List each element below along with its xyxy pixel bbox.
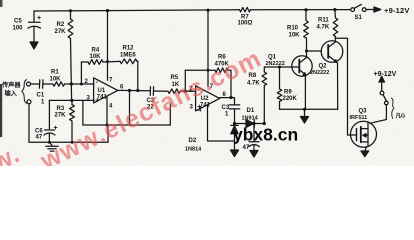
arrow up right terminal [379,76,385,82]
svg-text:741: 741 [200,103,211,109]
wire U2 pin7 riser to rail [207,10,209,86]
wire R4 to R12 [103,60,120,63]
wire U2 feedback riser [184,70,186,91]
wire Q2 collector riser [334,37,336,42]
resistor R1 [53,82,65,86]
wire U1 pin3 line [49,99,94,101]
transistor Q1 2N2222 [292,56,312,76]
svg-text:U1: U1 [98,88,106,94]
svg-text:+9-12V: +9-12V [384,6,410,15]
svg-text:47: 47 [243,145,250,151]
wire top supply rail [34,10,240,11]
svg-text:Q1: Q1 [268,55,277,61]
svg-text:47: 47 [36,135,43,141]
svg-text:Q3: Q3 [359,109,368,115]
wire riser from U1 output down to ground line [129,91,131,126]
svg-text:R12: R12 [123,46,135,52]
resistor R7 [240,7,251,12]
left edge scan bar [0,84,2,137]
svg-text:4.7K: 4.7K [317,25,330,31]
svg-text:S1: S1 [355,15,363,21]
ground arrow below Q3 [361,151,369,157]
svg-text:R3: R3 [57,106,65,112]
svg-text:+: + [37,15,41,22]
wire Q3 source to ground [365,147,367,151]
wire U1 pin4 [106,97,108,125]
svg-text:1N914: 1N914 [242,116,259,122]
switch S1 [351,8,355,12]
svg-text:R11: R11 [318,18,329,24]
resistor R10 [305,10,307,21]
resistor R5 [168,89,181,94]
wire bottom rail riser to ground line [107,125,109,142]
node load terminal 1 [380,91,384,95]
svg-text:1N814: 1N814 [185,147,202,153]
wire U2 pin4 elbow [208,105,235,141]
svg-text:C3: C3 [222,105,230,111]
resistor R3 [71,100,73,104]
svg-text:C1: C1 [37,93,45,99]
svg-text:R4: R4 [92,48,100,54]
wire ground line riser to pin3 line [82,100,84,125]
svg-text:R9: R9 [284,90,292,96]
wire pin3 corner down to C6 [48,100,50,128]
svg-text:741: 741 [97,95,108,101]
svg-text:R2: R2 [57,22,65,28]
svg-text:10K: 10K [50,77,62,83]
svg-text:2N2222: 2N2222 [266,61,285,67]
ground arrow below D2 [231,150,239,157]
paper background [0,0,414,166]
wire U1 output line [118,89,150,91]
svg-text:+9-12V: +9-12V [374,71,397,78]
MOSFET Q3 IRF511 [351,121,377,147]
ground arrow below C5 [30,42,38,49]
svg-text:输入: 输入 [5,90,18,98]
svg-text:10K: 10K [289,33,301,39]
svg-text:220K: 220K [283,96,298,102]
svg-text:R5: R5 [171,75,179,81]
svg-text:100: 100 [13,26,24,32]
resistor R12 [120,59,137,64]
wire Q2 base line [307,50,322,52]
svg-text:R10: R10 [287,26,299,32]
resistor R4 [81,61,88,63]
wire R4 riser from pin2 node [80,62,82,84]
capacitor C3 [229,104,239,106]
capacitor C2 [149,87,151,96]
input brace [22,80,27,104]
wire detector line [235,123,247,125]
wire ground line riser to U2 pin3 [169,104,171,125]
capacitor C5 [33,11,35,22]
svg-text:2N2222: 2N2222 [310,70,329,76]
ground below C6 [49,142,51,145]
capacitor C4 [253,124,255,142]
node input terminal 2 [27,100,31,104]
svg-text:ybx8.cn: ybx8.cn [233,125,298,145]
svg-text:C5: C5 [14,19,22,25]
wire R5 to U2 pin2 [181,90,196,92]
wire R1 to U1 pin2 [65,83,95,85]
diode D1 1N914 [246,120,254,128]
watermark elecfans red [0,44,266,196]
wire Q3 drain to load [368,122,371,123]
svg-text:D1: D1 [247,108,255,114]
node load terminal 2 [385,101,389,105]
svg-text:+: + [54,125,58,132]
wire collector node to Q3 gate riser [335,38,356,135]
wire R8 top to Q1 base [264,67,299,72]
wire R2 bottom to input node [70,39,73,85]
resistor R2 [70,11,72,19]
capacitor C6 [45,129,55,131]
svg-text:100Ω: 100Ω [238,21,253,27]
wire ground line under U1 [83,124,170,126]
svg-text:1ME6: 1ME6 [120,53,136,59]
wire R12 to output riser [136,61,139,90]
wire U2 output [220,98,235,105]
svg-text:传声器: 传声器 [1,81,21,89]
svg-text:27K: 27K [55,29,67,35]
svg-text:10K: 10K [90,54,102,60]
wire Q1 collector riser [306,38,308,58]
brace right of terminals [392,98,395,119]
resistor R9 [279,67,281,89]
resistor R6 [215,68,228,73]
svg-text:4.7K: 4.7K [247,81,260,87]
svg-text:R1: R1 [51,70,59,76]
diode D2 1N814 [231,124,238,126]
svg-text:27K: 27K [55,113,67,119]
svg-text:IRF511: IRF511 [350,115,368,121]
transistor Q2 2N2222 [321,41,343,63]
svg-text:Q2: Q2 [319,64,328,70]
node input terminal 1 [27,82,31,86]
wire R6 down to output [228,70,231,97]
wire emitter ground line [280,108,338,110]
ground arrow mid [304,109,306,116]
op-amp U2 741 [196,86,220,111]
resistor R11 [334,10,337,18]
capacitor C1 [38,80,40,88]
wire bottom rail [29,141,108,143]
ground arrow below C4 [250,151,258,158]
arrow to +9-12V top [374,7,381,12]
wire U1 pin7 riser to rail [107,11,109,81]
wire terminal2 down to bottom rail [28,104,30,142]
svg-text:D2: D2 [189,138,197,144]
resistor R8 riser [263,86,265,124]
op-amp U1 741 [94,78,118,103]
wire input node down to pin3 line [70,84,72,100]
svg-text:凡G: 凡G [396,112,406,120]
